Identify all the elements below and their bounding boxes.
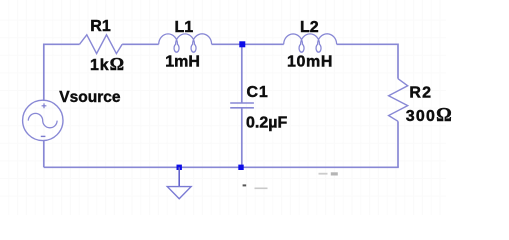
wire right bottom <box>397 121 399 167</box>
resistor R1 <box>80 35 123 54</box>
wire top-left segment <box>44 43 80 45</box>
minus sign <box>41 135 46 137</box>
svg-text:C1: C1 <box>247 84 269 101</box>
svg-text:1mH: 1mH <box>165 54 200 71</box>
wire L2 to top-right corner <box>337 43 398 45</box>
wire right top <box>397 44 399 79</box>
svg-text:300Ω: 300Ω <box>406 105 452 126</box>
capacitor C1 plates <box>230 103 254 108</box>
junction node bottom C1 <box>238 165 243 170</box>
wire left top <box>43 44 45 102</box>
smudge artifact gray streak 1 <box>255 188 268 190</box>
inductor L1 <box>159 34 212 52</box>
wire capacitor branch lower <box>241 108 243 168</box>
inductor L2 <box>284 34 337 52</box>
resistor R2 <box>389 79 408 122</box>
svg-text:R2: R2 <box>409 84 432 101</box>
smudge artifact gray blob <box>331 172 338 175</box>
junction node top (C1/L1/L2) <box>239 41 245 47</box>
wire left bottom <box>43 141 45 168</box>
smudge artifact gray streak 2 <box>319 173 328 175</box>
junction node ground <box>177 165 182 170</box>
wire capacitor branch upper <box>241 44 243 103</box>
wire R1 to L1 <box>122 43 159 45</box>
svg-text:R1: R1 <box>90 18 111 35</box>
wire L1 to L2 <box>212 43 284 45</box>
ground triangle <box>167 187 191 199</box>
smudge artifact dark dash <box>243 184 247 186</box>
plus sign <box>42 103 47 108</box>
sine wave <box>28 113 57 127</box>
svg-text:10mH: 10mH <box>287 54 333 71</box>
svg-text:L2: L2 <box>300 19 319 36</box>
svg-text:1kΩ: 1kΩ <box>90 54 124 74</box>
svg-text:0.2µF: 0.2µF <box>246 115 287 132</box>
ground stem <box>178 167 180 186</box>
voltage source V1 circle <box>23 100 63 140</box>
svg-text:Vsource: Vsource <box>59 89 121 106</box>
wire bottom <box>44 166 399 168</box>
svg-text:L1: L1 <box>175 19 194 36</box>
